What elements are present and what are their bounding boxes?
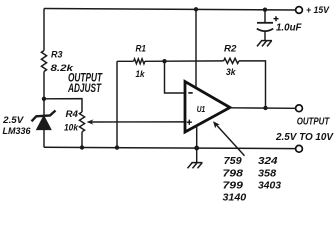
resistor R3: [41, 51, 46, 72]
arrow pointing to op-amp: [213, 121, 245, 156]
svg-text:R4: R4: [66, 109, 79, 120]
label OUTPUT ADJUST: [67, 73, 102, 95]
label 2.5V LM336: [2, 115, 31, 137]
capacitor C1: [257, 10, 279, 41]
wire R1 left leg down to rail: [116, 61, 118, 147]
svg-text:U1: U1: [197, 104, 206, 114]
junction dot R4 bottom: [80, 145, 84, 149]
svg-text:3403: 3403: [258, 181, 281, 192]
svg-text:759: 759: [224, 156, 242, 167]
svg-text:2.5V TO 10V: 2.5V TO 10V: [275, 131, 334, 143]
svg-text:3k: 3k: [226, 67, 236, 78]
svg-text:358: 358: [258, 169, 277, 180]
label OUTPUT 2.5V TO 10V: [275, 116, 334, 143]
svg-text:3140: 3140: [223, 192, 247, 203]
svg-text:2.5V: 2.5V: [2, 115, 24, 125]
junction dot output node: [263, 106, 267, 110]
junction dot feedback node: [162, 59, 166, 63]
wire R3 bottom to zener: [43, 72, 45, 117]
svg-text:R3: R3: [51, 50, 63, 60]
svg-text:798: 798: [223, 169, 244, 180]
label R4 value 10k: [64, 109, 79, 133]
label R3 value 8.2k: [51, 50, 74, 74]
wire feedback row R1 to R2: [145, 60, 224, 62]
ground below op-amp: [188, 163, 203, 169]
junction dot V- on bottom rail: [194, 146, 199, 151]
label R1 value 1k: [136, 43, 147, 80]
svg-text:10k: 10k: [64, 122, 79, 133]
terminal OUTPUT: [296, 105, 303, 112]
wire R2 right to output node: [239, 61, 266, 108]
wire V+ supply stub: [195, 9, 197, 88]
node A junction dot: [42, 97, 46, 101]
op-amp U1 triangle: [185, 82, 230, 133]
resistor R1: [134, 59, 145, 64]
svg-text:ADJUST: ADJUST: [67, 83, 101, 95]
wire R1 leg corner to R1: [117, 60, 134, 62]
wire bottom rail: [44, 147, 296, 148]
svg-text:+ 15V: + 15V: [306, 5, 330, 15]
wire V- stub through rail to ground: [196, 126, 198, 163]
wire top rail: [44, 9, 296, 11]
svg-text:R1: R1: [136, 43, 147, 53]
svg-text:R2: R2: [224, 44, 237, 54]
svg-text:LM336: LM336: [3, 126, 32, 137]
part number list: [223, 156, 282, 203]
junction dot capacitor on top rail: [263, 8, 267, 12]
wire op-amp output: [230, 107, 296, 110]
junction dot R1 leg on rail: [115, 145, 119, 149]
svg-text:799: 799: [223, 181, 244, 192]
wire feedback node to inverting input: [165, 61, 185, 93]
svg-text:1k: 1k: [136, 69, 146, 80]
terminal +15V: [296, 7, 303, 14]
resistor R2: [224, 58, 239, 63]
resistor R4 potentiometer: [79, 112, 84, 147]
svg-text:324: 324: [258, 156, 278, 167]
wire node A to R4 top: [44, 99, 82, 112]
junction dot V+ on top rail: [194, 7, 198, 11]
svg-text:1.0uF: 1.0uF: [276, 23, 302, 34]
svg-text:OUTPUT: OUTPUT: [297, 116, 331, 128]
zener diode D1 LM336: [32, 111, 56, 148]
R4 wiper arrow: [87, 119, 186, 124]
terminal output return on bottom rail: [296, 145, 303, 152]
label R2 value 3k: [224, 44, 237, 78]
ground below capacitor: [257, 41, 272, 47]
wire left vertical from top rail to R3: [43, 9, 45, 51]
